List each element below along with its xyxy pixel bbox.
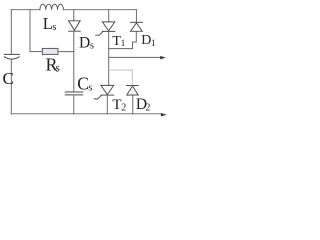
- thyristor T_1 triangle: [102, 22, 114, 31]
- wire D_s to C_s: [73, 31, 75, 92]
- wire D_s anode lead: [73, 10, 75, 21]
- arrowhead output top: [160, 56, 166, 60]
- capacitor C_s bottom plate: [65, 94, 83, 96]
- wire D_1 cathode lead: [135, 10, 137, 22]
- capacitor C top plate: [4, 53, 19, 55]
- wire C_s to bottom rail: [73, 95, 75, 114]
- svg-text:s: s: [88, 82, 92, 93]
- svg-text:D: D: [79, 34, 90, 51]
- diode D_2 cathode bar: [127, 85, 139, 87]
- capacitor C_s top plate: [65, 91, 83, 93]
- thyristor T_2 gate: [94, 95, 101, 99]
- diode D_1 cathode bar: [130, 21, 142, 23]
- wire R_s branch right lead: [58, 51, 74, 53]
- svg-text:D: D: [141, 33, 151, 48]
- diode D_1 triangle: [131, 23, 143, 31]
- arrowhead output bottom: [161, 113, 167, 117]
- wire output arrow line top: [109, 56, 161, 58]
- wire T_2 cathode to bottom rail: [106, 95, 108, 114]
- svg-text:2: 2: [145, 102, 150, 113]
- thyristor T_2 cathode bar: [101, 94, 114, 96]
- wire left vertical upper: [10, 10, 12, 54]
- svg-text:s: s: [55, 63, 60, 75]
- resistor R_s: [42, 48, 58, 54]
- wire D_2 anode to bottom rail: [132, 95, 134, 114]
- inductor L_s: [40, 4, 64, 10]
- wire top rail right segment: [63, 9, 136, 11]
- wire R_s branch vertical: [29, 10, 31, 52]
- wire T_1 anode lead: [108, 10, 110, 22]
- wire T_1 cathode to T_2 anode: [108, 31, 110, 85]
- diode D_s triangle: [69, 21, 81, 31]
- svg-text:s: s: [52, 21, 56, 33]
- svg-text:2: 2: [121, 102, 126, 113]
- thyristor T_1 gate: [96, 32, 103, 36]
- svg-text:C: C: [3, 69, 14, 88]
- thyristor T_2 triangle: [101, 85, 114, 94]
- wire node to D_1 anode (stepped): [109, 31, 137, 48]
- capacitor C curved bottom plate: [4, 57, 19, 59]
- wire top rail left segment: [11, 9, 40, 11]
- wire bottom rail: [11, 113, 161, 115]
- svg-text:1: 1: [121, 39, 126, 49]
- wire R_s branch left lead: [30, 51, 42, 53]
- diode D_s cathode bar: [69, 30, 81, 32]
- svg-text:1: 1: [151, 39, 156, 49]
- diode D_2 triangle: [127, 86, 138, 95]
- wire pink link node to D_2 cathode: [109, 70, 133, 85]
- svg-text:s: s: [90, 40, 94, 51]
- svg-text:T: T: [112, 97, 121, 113]
- wire left vertical lower: [10, 59, 12, 113]
- thyristor T_1 cathode bar: [102, 30, 114, 32]
